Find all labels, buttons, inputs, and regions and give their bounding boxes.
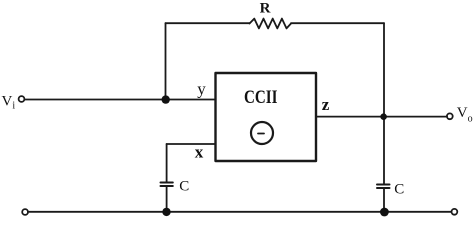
svg-text:R: R xyxy=(260,0,271,16)
wire: top rail left segment (node A to resistor) xyxy=(166,22,250,24)
capacitor C1 plates xyxy=(161,183,173,187)
wire: bottom ground rail xyxy=(28,211,451,213)
svg-text:CCII: CCII xyxy=(244,87,278,108)
wire: right vertical from top rail down to node B on z line xyxy=(383,23,385,116)
svg-text:Vo: Vo xyxy=(457,105,473,125)
svg-text:x: x xyxy=(195,143,204,162)
minus sign inside polarity circle xyxy=(258,133,264,135)
wire: capacitor C1 to bottom rail (node C) xyxy=(166,187,168,212)
wire: top rail right segment (resistor to node B) xyxy=(291,22,384,24)
svg-text:y: y xyxy=(197,80,206,99)
svg-text:C: C xyxy=(179,179,189,195)
junction node C (bottom-left, C1 to rail) xyxy=(162,208,170,216)
wire: pin x horizontal xyxy=(167,143,215,145)
terminal bottom-left (open circle) xyxy=(22,209,28,215)
terminal Vo (open circle) xyxy=(447,113,453,119)
wire: pin z to Vo terminal xyxy=(316,116,447,118)
svg-text:C: C xyxy=(394,182,404,198)
junction node A (Vi / R feedback) xyxy=(162,95,170,103)
svg-text:z: z xyxy=(322,95,330,114)
terminal bottom-right (open circle) xyxy=(452,209,458,215)
polarity circle (minus) inside CCII xyxy=(251,122,273,144)
wire: right vertical from z line down to capacitor C2 xyxy=(383,117,385,184)
resistor R xyxy=(250,19,292,29)
wire: capacitor C2 to bottom rail (node D) xyxy=(383,189,385,212)
wire: Vi terminal to pin y xyxy=(25,99,216,101)
CCII block U1 xyxy=(216,73,317,161)
junction node B (z / feedback) xyxy=(380,113,387,120)
terminal Vi (open circle) xyxy=(19,96,25,102)
wire: x branch vertical down to capacitor C1 xyxy=(166,144,168,182)
capacitor C2 plates xyxy=(377,185,390,189)
wire: left vertical (top rail down to node A on Vi line) xyxy=(165,23,167,99)
junction node D (bottom-right, C2 to rail) xyxy=(380,208,389,217)
svg-text:Vi: Vi xyxy=(2,94,16,112)
